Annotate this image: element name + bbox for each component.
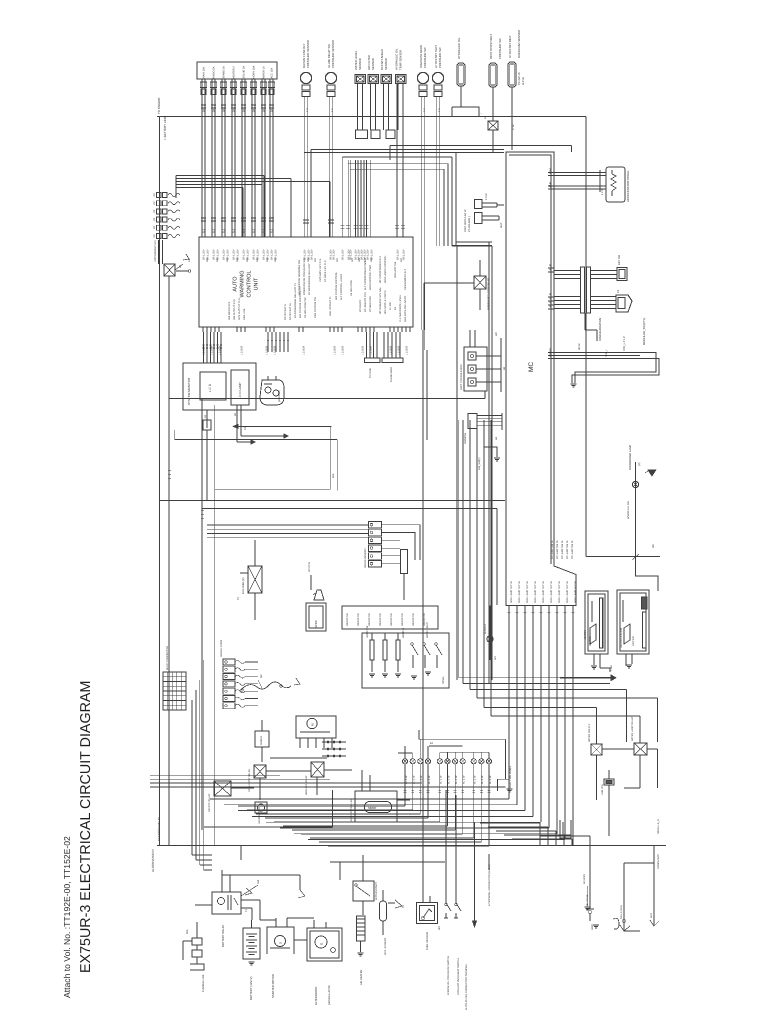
svg-text:WIPER SW RLY: WIPER SW RLY bbox=[588, 723, 591, 742]
svg-text:RECIRCULATION: RECIRCULATION bbox=[620, 628, 623, 648]
svg-text:STARTER MOTOR: STARTER MOTOR bbox=[271, 974, 275, 998]
svg-text:WARMING: WARMING bbox=[240, 271, 246, 298]
svg-text:ALT CONDITIONER PWR: ALT CONDITIONER PWR bbox=[364, 261, 367, 290]
svg-text:MR: MR bbox=[438, 926, 441, 930]
svg-text:GR: GR bbox=[226, 258, 229, 262]
svg-text:OVERLOAD SENSOR: OVERLOAD SENSOR bbox=[517, 30, 521, 58]
svg-text:GR: GR bbox=[400, 258, 403, 262]
svg-text:RADIO MEMORY: RADIO MEMORY bbox=[364, 548, 367, 568]
svg-text:ACC 15A: ACC 15A bbox=[271, 68, 274, 79]
svg-text:UNIT: UNIT bbox=[254, 277, 260, 290]
svg-text:AC-GND: AC-GND bbox=[583, 874, 586, 884]
svg-text:5A: 5A bbox=[203, 109, 206, 112]
svg-text:L 2.5GR: L 2.5GR bbox=[390, 346, 393, 355]
svg-text:GMD: GMD bbox=[591, 924, 594, 930]
svg-text:SIDE LAMP RLY W: SIDE LAMP RLY W bbox=[558, 581, 561, 603]
svg-text:SIDE LAMP RLY W: SIDE LAMP RLY W bbox=[534, 581, 537, 603]
svg-text:KB WELDING: KB WELDING bbox=[350, 280, 353, 296]
svg-text:R 2: R 2 bbox=[233, 228, 236, 233]
svg-text:SPARE 5A: SPARE 5A bbox=[223, 66, 226, 79]
svg-text:L 2.5GR: L 2.5GR bbox=[219, 346, 222, 355]
svg-text:R 2: R 2 bbox=[223, 228, 226, 233]
svg-text:AT WEEKDAY: AT WEEKDAY bbox=[369, 296, 372, 312]
svg-text:GR: GR bbox=[236, 258, 239, 262]
svg-text:L 2.5GR: L 2.5GR bbox=[334, 346, 337, 355]
svg-text:SYSTEM MONITOR: SYSTEM MONITOR bbox=[187, 377, 191, 405]
svg-text:L.MA: L.MA bbox=[610, 665, 613, 671]
svg-text:GR: GR bbox=[256, 258, 259, 262]
svg-text:GR: GR bbox=[246, 258, 249, 262]
svg-text:AT LAMP SW RL: AT LAMP SW RL bbox=[571, 539, 574, 559]
svg-text:KEY SW: KEY SW bbox=[618, 254, 621, 265]
svg-text:AT LAMP SW RL: AT LAMP SW RL bbox=[556, 539, 559, 559]
svg-text:ALTERNATOR: ALTERNATOR bbox=[314, 987, 318, 1005]
svg-text:MR CANTLE KNSYS: MR CANTLE KNSYS bbox=[384, 290, 387, 314]
svg-text:AL-2 W: AL-2 W bbox=[420, 775, 423, 784]
svg-text:A2: A2 bbox=[484, 115, 487, 119]
svg-text:R 2: R 2 bbox=[271, 228, 274, 233]
svg-text:ALTERNATOR R: ALTERNATOR R bbox=[151, 848, 155, 872]
svg-text:L C D LAMP: L C D LAMP bbox=[238, 382, 242, 399]
svg-text:RADIO PW: RADIO PW bbox=[379, 613, 382, 626]
svg-text:ALT CONTROL LEVER: ALT CONTROL LEVER bbox=[340, 274, 343, 300]
svg-text:SIDE LAMP RLY W: SIDE LAMP RLY W bbox=[526, 581, 529, 603]
svg-text:ACX: ACX bbox=[650, 913, 653, 918]
svg-text:HOUR METER: HOUR METER bbox=[258, 807, 261, 824]
svg-text:1 2: 1 2 bbox=[438, 108, 441, 112]
svg-text:BATTERY RELAY: BATTERY RELAY bbox=[221, 925, 225, 947]
svg-text:R 2: R 2 bbox=[213, 228, 216, 233]
svg-text:TO ENGINE: TO ENGINE bbox=[157, 98, 161, 114]
svg-text:B.Dx WER.(F): B.Dx WER.(F) bbox=[242, 577, 245, 594]
svg-text:M2: M2 bbox=[260, 674, 263, 678]
svg-text:(BUZZER): (BUZZER) bbox=[278, 390, 281, 402]
svg-text:34MMSW: 34MMSW bbox=[464, 432, 467, 444]
svg-text:SEATER: SEATER bbox=[589, 636, 592, 646]
svg-text:CAB LINE: CAB LINE bbox=[243, 308, 246, 320]
svg-text:RADIO PW: RADIO PW bbox=[401, 613, 404, 626]
svg-text:GM RADIO SYS: GM RADIO SYS bbox=[228, 301, 231, 320]
svg-text:GAIL STREET PL: GAIL STREET PL bbox=[329, 296, 332, 316]
svg-text:AL-2 W: AL-2 W bbox=[428, 775, 431, 784]
svg-text:ANTI-RESTART: ANTI-RESTART bbox=[375, 882, 378, 900]
svg-text:JOXE CONT RELAY: JOXE CONT RELAY bbox=[248, 769, 251, 792]
svg-text:AT OFFSET BL: AT OFFSET BL bbox=[289, 302, 292, 320]
svg-text:EMERGENCY STOP RELAY: EMERGENCY STOP RELAY bbox=[487, 277, 490, 310]
svg-text:COOLANT OVERHEAT SWITCH: COOLANT OVERHEAT SWITCH bbox=[457, 958, 460, 995]
svg-text:AL-2 W: AL-2 W bbox=[481, 775, 484, 784]
svg-text:L 2.5GR: L 2.5GR bbox=[342, 346, 345, 355]
svg-text:REST OPRST BELT: REST OPRST BELT bbox=[489, 33, 493, 59]
svg-text:L 2.5GR: L 2.5GR bbox=[406, 346, 409, 355]
svg-text:B LINE: B LINE bbox=[389, 302, 392, 310]
svg-text:BR 1.25Y: BR 1.25Y bbox=[342, 249, 345, 260]
svg-text:L 2.5GR: L 2.5GR bbox=[211, 346, 214, 355]
svg-text:WAMP-S: WAMP-S bbox=[402, 627, 405, 638]
svg-text:RADIO PW: RADIO PW bbox=[412, 613, 415, 626]
svg-text:AUTO: AUTO bbox=[233, 276, 239, 292]
svg-text:NANULLA_R: NANULLA_R bbox=[657, 819, 660, 834]
svg-text:SIDE LAMP RLY W: SIDE LAMP RLY W bbox=[518, 581, 521, 603]
svg-text:M3 W: M3 W bbox=[578, 343, 581, 350]
svg-text:SIDE LAMP RLY W: SIDE LAMP RLY W bbox=[542, 581, 545, 603]
svg-text:HEATER 5: HEATER 5 bbox=[233, 66, 236, 79]
svg-text:A/MODULE SW: A/MODULE SW bbox=[627, 501, 630, 519]
svg-text:AT LAMP SW RL: AT LAMP SW RL bbox=[561, 539, 564, 559]
svg-text:1 2: 1 2 bbox=[423, 108, 426, 112]
svg-text:CONTROL: CONTROL bbox=[247, 271, 253, 298]
svg-text:GPS OUTPUT PLS: GPS OUTPUT PLS bbox=[238, 298, 241, 320]
svg-text:AIR SYSTEM CONTROL: AIR SYSTEM CONTROL bbox=[335, 271, 338, 300]
svg-text:L 2.5GR: L 2.5GR bbox=[303, 346, 306, 355]
svg-text:AT READY: AT READY bbox=[359, 299, 362, 312]
svg-text:AL-2 W: AL-2 W bbox=[489, 775, 492, 784]
svg-text:GR: GR bbox=[314, 258, 317, 262]
svg-text:SAFETY RELAY: SAFETY RELAY bbox=[208, 793, 211, 812]
svg-text:5A: 5A bbox=[213, 109, 216, 112]
svg-text:DESIGNATED ALT: DESIGNATED ALT bbox=[404, 269, 407, 290]
svg-text:1 2: 1 2 bbox=[331, 108, 334, 112]
svg-text:SPKR W: SPKR W bbox=[308, 561, 311, 572]
svg-text:CAB SYSTEM PW: CAB SYSTEM PW bbox=[314, 297, 317, 318]
svg-text:TO CAB: TO CAB bbox=[369, 368, 372, 378]
svg-text:TEMP SENSOR: TEMP SENSOR bbox=[399, 50, 403, 70]
svg-text:P4 3LP-W: P4 3LP-W bbox=[517, 72, 521, 85]
svg-text:RADIO PW: RADIO PW bbox=[390, 613, 393, 626]
svg-text:GM: GM bbox=[257, 880, 260, 884]
svg-text:1 2: 1 2 bbox=[306, 108, 309, 112]
svg-text:L 2.5GR: L 2.5GR bbox=[362, 346, 365, 355]
svg-text:(R): (R) bbox=[638, 462, 641, 466]
svg-text:L 2.5GR: L 2.5GR bbox=[203, 346, 206, 355]
svg-text:ARM CONTROL PWR: ARM CONTROL PWR bbox=[369, 265, 372, 290]
svg-text:BATTERY (12V×2): BATTERY (12V×2) bbox=[249, 977, 253, 1000]
svg-text:HORN 10A: HORN 10A bbox=[253, 65, 256, 78]
svg-text:ATMOSPHERE PRESSURE SW: ATMOSPHERE PRESSURE SW bbox=[303, 258, 306, 295]
svg-text:AIR HEATER: AIR HEATER bbox=[360, 970, 363, 985]
svg-text:R 2: R 2 bbox=[253, 228, 256, 233]
svg-text:SOLND 5A: SOLND 5A bbox=[243, 66, 246, 79]
svg-text:AT URGENT SYS: AT URGENT SYS bbox=[364, 292, 367, 312]
svg-text:5A: 5A bbox=[263, 109, 266, 112]
svg-text:3LP-W: 3LP-W bbox=[522, 77, 525, 85]
svg-text:AT OFFSET B: AT OFFSET B bbox=[284, 304, 287, 320]
svg-text:GAS ANTILOG LIVERY: GAS ANTILOG LIVERY bbox=[404, 295, 407, 322]
svg-text:L C D: L C D bbox=[208, 383, 212, 392]
svg-text:GR: GR bbox=[266, 258, 269, 262]
svg-text:GR: GR bbox=[216, 258, 219, 262]
svg-text:L 2.5GR: L 2.5GR bbox=[266, 346, 269, 355]
svg-text:MAP: MAP bbox=[500, 222, 503, 228]
svg-text:LMT GATE KEY PLS: LMT GATE KEY PLS bbox=[319, 258, 322, 282]
svg-text:4-TERMINAL CONNECTOR (GLOW): 4-TERMINAL CONNECTOR (GLOW) bbox=[488, 864, 491, 906]
svg-text:SIDE LAMP RLY W: SIDE LAMP RLY W bbox=[574, 581, 577, 603]
svg-text:LMB LTG: LMB LTG bbox=[601, 784, 604, 795]
svg-text:GM_SW(F): GM_SW(F) bbox=[478, 457, 481, 470]
svg-text:SIDE LAMP RLY W: SIDE LAMP RLY W bbox=[566, 581, 569, 603]
svg-text:GR: GR bbox=[364, 258, 367, 262]
svg-text:ST GATE KEY PLS: ST GATE KEY PLS bbox=[324, 260, 327, 282]
svg-text:PRESSURE SENSOR: PRESSURE SENSOR bbox=[306, 40, 310, 68]
svg-text:SPKR: SPKR bbox=[314, 620, 318, 628]
svg-text:VIGILANT SW: VIGILANT SW bbox=[394, 261, 397, 278]
svg-text:AIR SYSTEM CONTROL PL: AIR SYSTEM CONTROL PL bbox=[299, 286, 302, 318]
svg-text:5A: 5A bbox=[223, 109, 226, 112]
svg-text:5A: 5A bbox=[253, 109, 256, 112]
svg-text:SENSOR: SENSOR bbox=[384, 58, 388, 70]
svg-text:75M_L: 75M_L bbox=[605, 349, 608, 357]
svg-text:AMBER: AMBER bbox=[260, 736, 263, 745]
svg-text:PRESSURE SW: PRESSURE SW bbox=[423, 47, 427, 68]
svg-text:PANEL: PANEL bbox=[442, 675, 445, 684]
svg-text:UNITOMOSHT SPL: UNITOMOSHT SPL bbox=[154, 239, 157, 262]
svg-text:C 12: C 12 bbox=[512, 124, 515, 130]
svg-text:4T-J3A ARB ): 4T-J3A ARB ) bbox=[468, 216, 471, 232]
svg-text:AL-2 W: AL-2 W bbox=[447, 775, 450, 784]
svg-text:PRESSURE SW: PRESSURE SW bbox=[498, 38, 502, 59]
svg-text:RADIO 5A: RADIO 5A bbox=[213, 66, 216, 78]
svg-text:EX75UR-3 ELECTRICAL CIRCUIT DI: EX75UR-3 ELECTRICAL CIRCUIT DIAGRAM bbox=[78, 681, 94, 973]
svg-text:W2: W2 bbox=[495, 332, 498, 336]
svg-text:MULTI CONNECTOR: MULTI CONNECTOR bbox=[166, 646, 169, 670]
svg-text:STARTER RELAY: STARTER RELAY bbox=[157, 817, 161, 841]
svg-text:L 2.5GR: L 2.5GR bbox=[241, 346, 244, 355]
svg-text:AL-2 W: AL-2 W bbox=[455, 775, 458, 784]
svg-text:GR: GR bbox=[307, 258, 310, 262]
svg-text:HEATER: HEATER bbox=[584, 630, 587, 640]
svg-text:AL-2 W: AL-2 W bbox=[474, 775, 477, 784]
svg-text:Attach to Vol. No. :TT192E-00,: Attach to Vol. No. :TT192E-00, TT152E-02 bbox=[62, 836, 72, 998]
svg-text:BUZZER: BUZZER bbox=[484, 624, 487, 634]
svg-text:W5: W5 bbox=[652, 544, 655, 548]
svg-text:PRESSURE SW: PRESSURE SW bbox=[438, 47, 442, 68]
svg-text:MAIN 15A: MAIN 15A bbox=[203, 67, 206, 79]
svg-text:ARM LAMPS CONTROL: ARM LAMPS CONTROL bbox=[384, 255, 387, 283]
svg-text:LP OFFSET BELT: LP OFFSET BELT bbox=[508, 35, 512, 58]
svg-text:5800F: 5800F bbox=[368, 806, 377, 810]
svg-text:L 2.5GR: L 2.5GR bbox=[274, 346, 277, 355]
svg-text:AL-2 W: AL-2 W bbox=[440, 775, 443, 784]
svg-text:30A: 30A bbox=[186, 929, 189, 934]
svg-text:GR: GR bbox=[351, 258, 354, 262]
svg-text:L 2.5GR: L 2.5GR bbox=[370, 346, 373, 355]
svg-text:AUTO-IDLING CONNECTOR TERMINAL: AUTO-IDLING CONNECTOR TERMINAL bbox=[465, 963, 468, 1010]
svg-text:MODULAR_SW(CYL): MODULAR_SW(CYL) bbox=[642, 318, 646, 345]
svg-text:RADIO PW: RADIO PW bbox=[368, 613, 371, 626]
svg-text:ENGINE OIL PRESSURE SWITCH: ENGINE OIL PRESSURE SWITCH bbox=[447, 956, 450, 995]
svg-text:5A: 5A bbox=[271, 109, 274, 112]
svg-text:FLASH ARM: FLASH ARM bbox=[390, 367, 393, 382]
svg-text:+ BATTERY LINE: + BATTERY LINE bbox=[163, 116, 167, 140]
svg-text:R 2: R 2 bbox=[203, 228, 206, 233]
svg-text:GR: GR bbox=[274, 258, 277, 262]
svg-text:KB WELDING PW: KB WELDING PW bbox=[304, 297, 307, 318]
svg-text:MT CONDITIONER RLY: MT CONDITIONER RLY bbox=[379, 256, 382, 283]
svg-text:RADIO PW: RADIO PW bbox=[357, 613, 360, 626]
svg-text:FAN SW: FAN SW bbox=[632, 636, 635, 646]
svg-text:WIPER 10: WIPER 10 bbox=[263, 66, 266, 78]
svg-text:5A: 5A bbox=[243, 109, 246, 112]
svg-text:GR: GR bbox=[336, 258, 339, 262]
svg-text:WIPER LAMP RELAY: WIPER LAMP RELAY bbox=[631, 716, 634, 741]
svg-text:AT&T MODULAR W: AT&T MODULAR W bbox=[464, 209, 467, 232]
svg-text:PRESSURE SENSOR: PRESSURE SENSOR bbox=[331, 40, 335, 68]
svg-text:L 2.5GR: L 2.5GR bbox=[398, 346, 401, 355]
svg-text:RADIO PW: RADIO PW bbox=[346, 613, 349, 626]
svg-text:FUSIBLE LINK: FUSIBLE LINK bbox=[202, 974, 205, 992]
svg-text:AL-2 W: AL-2 W bbox=[463, 775, 466, 784]
svg-text:H/AIR&UREATRA/: H/AIR&UREATRA/ bbox=[598, 318, 602, 341]
svg-text:AT ARREARAGE GALLERY PL: AT ARREARAGE GALLERY PL bbox=[294, 282, 297, 318]
svg-text:MT BRIGADE SYS GAL: MT BRIGADE SYS GAL bbox=[379, 286, 382, 314]
svg-text:AT LAMP SW RL: AT LAMP SW RL bbox=[551, 539, 554, 559]
svg-text:WORK LIGHT: WORK LIGHT bbox=[426, 622, 429, 638]
svg-text:HYDRAULIC OIL: HYDRAULIC OIL bbox=[457, 37, 461, 59]
svg-text:S: S bbox=[279, 942, 283, 944]
svg-text:GR: GR bbox=[358, 258, 361, 262]
svg-text:P2: P2 bbox=[617, 289, 620, 293]
svg-text:ACCELERATOR PEDAL: ACCELERATOR PEDAL bbox=[626, 170, 630, 202]
svg-text:SENSOR: SENSOR bbox=[358, 58, 362, 70]
svg-text:WASHER RELAY: WASHER RELAY bbox=[305, 775, 308, 795]
svg-text:GM OUTPUT SYS: GM OUTPUT SYS bbox=[233, 299, 236, 320]
svg-text:GR: GR bbox=[206, 258, 209, 262]
svg-text:5A: 5A bbox=[233, 109, 236, 112]
svg-text:BY ARREARAGE GALLERY: BY ARREARAGE GALLERY bbox=[308, 263, 311, 295]
svg-text:DOWNLOAD: DOWNLOAD bbox=[657, 854, 660, 869]
svg-text:40A: 40A bbox=[332, 473, 335, 478]
svg-text:W1: W1 bbox=[494, 656, 497, 660]
svg-text:SIDE LAMP RLY W: SIDE LAMP RLY W bbox=[510, 581, 513, 603]
svg-text:FUEL SENSOR: FUEL SENSOR bbox=[426, 932, 429, 950]
svg-text:2 3 W: 2 3 W bbox=[485, 193, 488, 200]
svg-text:SIDE LAMP RLY W: SIDE LAMP RLY W bbox=[550, 581, 553, 603]
svg-text:AT LAMP SW RL: AT LAMP SW RL bbox=[566, 539, 569, 559]
svg-text:←: ← bbox=[480, 111, 483, 115]
svg-text:HORN SW: HORN SW bbox=[366, 625, 369, 638]
svg-text:SENSOR: SENSOR bbox=[371, 58, 375, 70]
svg-text:LEFT CONSOLE BOX: LEFT CONSOLE BOX bbox=[460, 364, 463, 390]
svg-text:STR_L.P L.P: STR_L.P L.P bbox=[623, 336, 626, 351]
svg-text:FLK MAJORATE LEVEL: FLK MAJORATE LEVEL bbox=[399, 294, 402, 322]
svg-text:(W/REGULATOR): (W/REGULATOR) bbox=[328, 985, 331, 1005]
svg-text:SIGNAL CONN: SIGNAL CONN bbox=[220, 640, 223, 657]
svg-text:1 2 3: 1 2 3 bbox=[601, 189, 604, 195]
svg-text:ROOM/DOME LAMP: ROOM/DOME LAMP bbox=[629, 445, 632, 470]
svg-text:ACX. SENSOR: ACX. SENSOR bbox=[384, 938, 387, 955]
svg-text:MC: MC bbox=[528, 362, 535, 372]
svg-text:TAIL-S W-M: TAIL-S W-M bbox=[620, 905, 623, 919]
svg-text:GR: GR bbox=[370, 258, 373, 262]
